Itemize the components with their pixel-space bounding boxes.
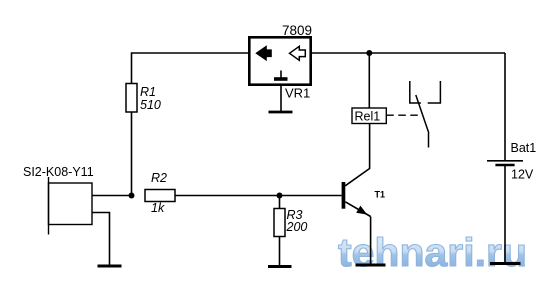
svg-text:12V: 12V bbox=[511, 168, 534, 182]
wire top rail left (R1 top to regulator input) bbox=[132, 53, 249, 84]
sensor SI2-K08-Y11 bbox=[23, 165, 94, 235]
resistor R3 bbox=[274, 208, 307, 237]
battery Bat1 bbox=[487, 141, 536, 182]
ground (battery) bbox=[490, 262, 521, 265]
relay contact moving arm bbox=[416, 95, 429, 148]
regulator output arrow (outline) bbox=[290, 46, 306, 60]
resistor R2 bbox=[145, 171, 175, 215]
node C junction dot bbox=[366, 50, 372, 56]
svg-text:VR1: VR1 bbox=[285, 86, 310, 101]
relay coil Rel1 bbox=[352, 108, 386, 124]
svg-text:SI2-K08-Y11: SI2-K08-Y11 bbox=[23, 165, 94, 179]
resistor R1 bbox=[126, 84, 161, 113]
svg-text:R1: R1 bbox=[140, 85, 156, 99]
svg-text:Bat1: Bat1 bbox=[511, 141, 537, 155]
wire node C to Rel1 bbox=[368, 53, 370, 108]
node B junction dot bbox=[277, 193, 283, 199]
svg-text:Rel1: Rel1 bbox=[355, 110, 381, 124]
wire emitter to ground bbox=[370, 217, 372, 266]
wire top rail right (regulator output to battery) bbox=[312, 52, 505, 54]
wire node B to R3 bbox=[279, 196, 281, 209]
transistor T1 bbox=[342, 182, 385, 209]
wire rail to battery bbox=[504, 53, 506, 160]
wire regulator ground pin bbox=[280, 86, 282, 112]
ground (emitter) bbox=[356, 264, 386, 267]
ground (R3) bbox=[268, 265, 292, 268]
dashed mechanical link Rel1 to contact bbox=[386, 114, 420, 116]
wire sensor output to node A bbox=[92, 195, 132, 197]
svg-text:200: 200 bbox=[286, 220, 308, 234]
node A junction dot bbox=[129, 193, 135, 199]
svg-text:510: 510 bbox=[140, 98, 161, 112]
regulator input arrow (filled) bbox=[256, 46, 271, 60]
wire R1 bottom to node A bbox=[131, 112, 133, 196]
svg-text:tehnari.ru: tehnari.ru bbox=[338, 231, 527, 275]
relay contact fixed terminals bbox=[410, 81, 441, 103]
svg-text:1k: 1k bbox=[151, 201, 165, 215]
svg-text:R2: R2 bbox=[151, 171, 167, 185]
wire sensor to ground bbox=[92, 213, 110, 267]
ground (regulator) bbox=[269, 111, 293, 114]
transistor emitter with arrow bbox=[345, 202, 370, 217]
wire Rel1 to transistor collector bbox=[345, 124, 369, 186]
ground (sensor) bbox=[98, 265, 122, 268]
watermark tehnari.ru bbox=[338, 231, 527, 275]
wire R3 to ground bbox=[279, 237, 281, 267]
svg-text:7809: 7809 bbox=[282, 23, 312, 38]
wire battery to ground bbox=[504, 165, 506, 264]
regulator internal ground mark bbox=[274, 71, 288, 80]
wire R2 to transistor base bbox=[175, 195, 342, 197]
voltage regulator VR1 7809 bbox=[249, 23, 312, 101]
svg-text:T1: T1 bbox=[375, 190, 386, 200]
